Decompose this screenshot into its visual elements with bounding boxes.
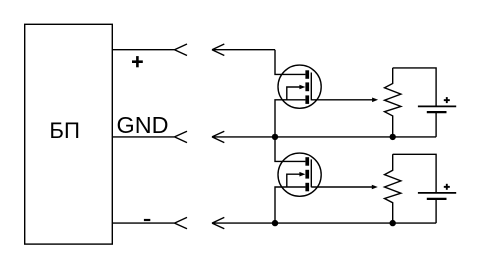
svg-text:БП: БП <box>49 118 80 143</box>
svg-text:GND: GND <box>117 112 169 138</box>
